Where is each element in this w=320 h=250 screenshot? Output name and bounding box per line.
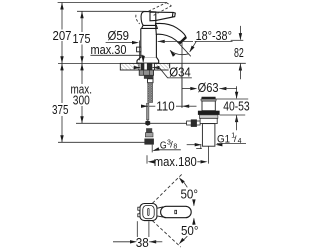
svg-text:/: / <box>234 134 237 145</box>
svg-text:50°: 50° <box>181 186 199 201</box>
svg-text:G1: G1 <box>217 133 230 145</box>
svg-text:max.180: max.180 <box>154 154 197 169</box>
svg-text:4: 4 <box>238 138 242 145</box>
svg-text:G: G <box>160 141 167 152</box>
svg-text:max.30: max.30 <box>91 42 127 57</box>
svg-text:110: 110 <box>156 99 175 114</box>
svg-text:207: 207 <box>53 28 72 43</box>
svg-text:50°: 50° <box>181 223 199 238</box>
svg-text:8: 8 <box>173 143 177 150</box>
svg-text:175: 175 <box>73 31 91 46</box>
svg-text:38: 38 <box>136 235 149 250</box>
svg-text:Ø59: Ø59 <box>108 28 130 43</box>
svg-text:82: 82 <box>234 45 244 60</box>
svg-text:40-53: 40-53 <box>223 99 250 114</box>
svg-text:300: 300 <box>73 92 90 107</box>
svg-text:Ø63: Ø63 <box>198 80 219 95</box>
svg-text:375: 375 <box>52 102 69 117</box>
svg-text:18°-38°: 18°-38° <box>196 28 232 43</box>
svg-text:Ø34: Ø34 <box>169 64 191 79</box>
